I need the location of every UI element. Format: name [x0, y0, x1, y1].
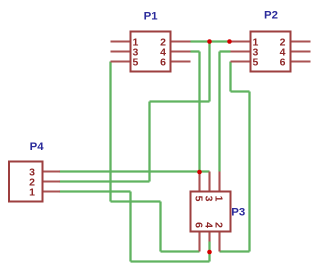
wire — [111, 200, 161, 202]
pin P3.4 — [208, 232, 210, 242]
wire — [129, 192, 131, 262]
wire — [60, 180, 150, 182]
wire — [131, 260, 210, 262]
pin P4.1 — [43, 190, 61, 192]
body P4 — [9, 162, 43, 202]
junction dot — [227, 39, 232, 44]
body P2 — [251, 32, 291, 72]
svg-text:6: 6 — [160, 57, 166, 69]
net N$5: P1.5 / P3.6 — [111, 62, 200, 252]
pin P3.6 — [198, 232, 200, 252]
net N$3: P2.3 / P3.1 — [220, 52, 231, 172]
wire — [148, 102, 150, 182]
svg-text:5: 5 — [133, 57, 139, 69]
connector P1 — [111, 11, 191, 72]
net N$2: P1.4 / P4.3 / P3.5 / P3.3 — [60, 52, 210, 172]
pin P2.2 — [291, 40, 311, 42]
pin P1.4 — [171, 50, 191, 52]
svg-text:1: 1 — [29, 187, 35, 199]
net N$4: P2.5 / P3.2 — [220, 62, 250, 252]
wire — [220, 50, 231, 52]
wire — [60, 190, 131, 192]
wire — [231, 90, 250, 92]
net N$6: P4.1 / P3.4 — [60, 192, 210, 262]
wire — [229, 62, 231, 92]
pin P2.5 — [231, 60, 251, 62]
svg-text:P2: P2 — [264, 10, 278, 22]
pin P2.6 — [291, 60, 311, 62]
pin P1.6 — [171, 60, 191, 62]
pin P3.3 — [208, 172, 210, 192]
wire — [191, 50, 200, 52]
wire — [60, 170, 210, 172]
connector P2 — [231, 10, 311, 72]
wire — [220, 250, 250, 252]
wire — [208, 242, 210, 262]
pin P2.3 — [231, 50, 251, 52]
svg-text:P3: P3 — [231, 207, 245, 219]
svg-text:1: 1 — [213, 196, 225, 202]
pin P2.1 — [231, 40, 251, 42]
wire — [208, 42, 210, 102]
svg-text:P4: P4 — [30, 141, 45, 153]
pin P3.1 — [218, 172, 220, 192]
wire — [248, 92, 250, 252]
junction dot — [207, 250, 212, 255]
wire — [198, 52, 200, 172]
pin P3.5 — [198, 172, 200, 192]
wire — [161, 250, 200, 252]
pin P1.3 — [111, 50, 131, 52]
svg-text:2: 2 — [213, 222, 225, 228]
net N$1: P1.2 / P2.1 / P4.2 — [60, 42, 231, 182]
pin P1.2 — [171, 40, 191, 42]
pin P4.3 — [43, 170, 61, 172]
pin P4.2 — [43, 180, 61, 182]
wire — [159, 202, 161, 252]
svg-text:6: 6 — [280, 57, 286, 69]
wire — [218, 52, 220, 172]
wire — [191, 40, 231, 42]
body P1 — [131, 32, 171, 72]
pin P3.2 — [218, 232, 220, 252]
wire — [109, 62, 111, 202]
junction dot — [207, 39, 212, 44]
body P3 — [191, 192, 231, 232]
pin P1.1 — [111, 40, 131, 42]
connector P3 (rotated 90deg) — [191, 172, 246, 252]
wire — [150, 100, 210, 102]
junction dot — [197, 170, 202, 175]
pin P2.4 — [291, 50, 311, 52]
svg-text:5: 5 — [253, 57, 259, 69]
svg-text:P1: P1 — [144, 11, 159, 23]
connector P4 — [9, 141, 60, 202]
pin P1.5 — [111, 60, 131, 62]
